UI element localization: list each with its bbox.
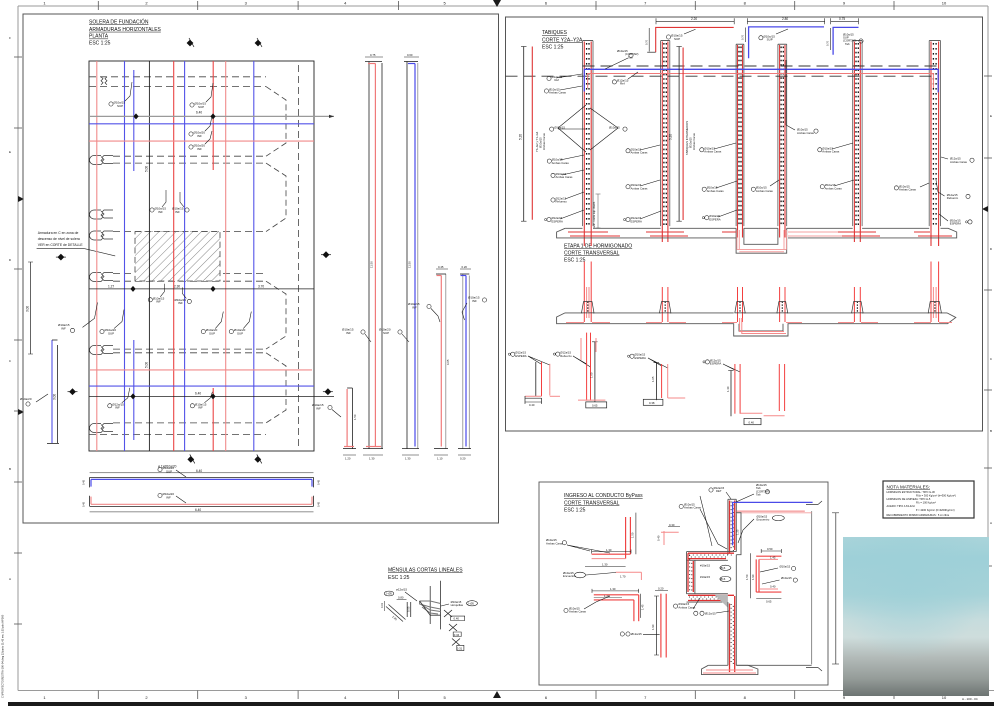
- svg-text:0.45: 0.45: [317, 501, 321, 507]
- svg-text:ESC 1:25: ESC 1:25: [564, 507, 586, 513]
- svg-text:Encuentro: Encuentro: [757, 518, 770, 522]
- panel 1 titles: [89, 19, 162, 47]
- svg-text:INF: INF: [197, 147, 202, 151]
- svg-text:ESPERA: ESPERA: [710, 362, 721, 366]
- svg-text:CORTE TRANSVERSAL: CORTE TRANSVERSAL: [564, 500, 620, 506]
- svg-text:INGRESO AL CONDUCTO ByPass: INGRESO AL CONDUCTO ByPass: [564, 493, 643, 499]
- svg-text:ff = 4200 Kg/cm² (F=4200Kg/cm: ff = 4200 Kg/cm² (F=4200Kg/cm²): [916, 508, 955, 512]
- bottom center arrow marker: [493, 691, 501, 698]
- section marker right D: [323, 388, 333, 395]
- svg-text:1.25: 1.25: [736, 529, 740, 535]
- svg-text:5.00: 5.00: [145, 166, 149, 172]
- z-wall middle horizontal band: [687, 552, 737, 561]
- bent bar diagram T2 blue 2.80: [741, 17, 825, 58]
- svg-text:Ø16: Ø16: [720, 566, 726, 570]
- svg-text:Refuerzo: Refuerzo: [560, 354, 572, 358]
- bottom column numbers: [43, 695, 947, 700]
- svg-text:SUP: SUP: [383, 331, 389, 335]
- svg-text:B: B: [9, 467, 11, 471]
- plan rebar tag callouts: [70, 82, 251, 408]
- svg-text:0.75: 0.75: [370, 53, 376, 57]
- svg-text:Ambas Caras: Ambas Caras: [569, 610, 587, 614]
- svg-text:R'c = 100 Kg/cm²: R'c = 100 Kg/cm²: [916, 501, 936, 505]
- svg-text:Ambas Caras: Ambas Caras: [631, 151, 649, 155]
- callout ref between c3 c4: [0, 0, 1, 1]
- svg-text:1.50: 1.50: [353, 414, 357, 420]
- svg-text:A: A: [990, 521, 992, 525]
- callout encuentro right: [738, 515, 784, 544]
- blue rebar in z-wall: [733, 502, 813, 545]
- plan rebar horizontal red y369.9: [90, 369, 312, 371]
- svg-text:INF: INF: [178, 301, 183, 305]
- svg-text:Ø16: Ø16: [720, 577, 726, 581]
- svg-text:0.30: 0.30: [669, 523, 675, 527]
- svg-text:Ref: Ref: [620, 82, 625, 86]
- svg-text:0.20: 0.20: [462, 265, 468, 269]
- svg-text:1.30: 1.30: [602, 563, 608, 567]
- svg-text:1.10: 1.10: [437, 457, 443, 461]
- vertical bar diagram v2 blue tall: [379, 53, 419, 461]
- NOTA MATERIALES title block: [883, 481, 974, 518]
- plan rebar vertical blue x253.8: [253, 61, 255, 451]
- svg-text:Armadura en C en zona de: Armadura en C en zona de: [38, 231, 79, 235]
- svg-text:HORMIGON DE LIMPIEZA: TIPO H: HORMIGON DE LIMPIEZA: TIPO H-5: [887, 497, 931, 501]
- svg-text:SUP: SUP: [198, 105, 204, 109]
- panel 2 titles: [542, 30, 583, 50]
- left callouts column c1: [544, 74, 627, 222]
- svg-text:2.30: 2.30: [174, 285, 180, 289]
- svg-text:1.70: 1.70: [620, 575, 626, 579]
- svg-text:6.40: 6.40: [196, 111, 202, 115]
- svg-text:F: F: [9, 36, 11, 40]
- ground line right of footing: [736, 664, 811, 666]
- horizontal bar diagram blue 6.40: [82, 466, 321, 487]
- callout c4 lower: [751, 180, 779, 193]
- panel 3 frame: ingreso al conducto: [539, 482, 828, 685]
- etapa wall stub rebar c5: [838, 287, 878, 323]
- svg-text:0.40: 0.40: [657, 535, 661, 541]
- svg-text:11.50: 11.50: [370, 261, 374, 268]
- svg-text:ESC 1:25: ESC 1:25: [564, 257, 586, 263]
- section marker left D: [68, 388, 78, 395]
- section marker bottom B: [254, 454, 261, 463]
- svg-text:SUP: SUP: [117, 104, 123, 108]
- red rebar top run: [736, 510, 805, 512]
- svg-text:0.70: 0.70: [741, 34, 745, 40]
- svg-text:ESPERA: ESPERA: [552, 219, 563, 223]
- left edge bar diagram x52: [20, 340, 59, 444]
- svg-text:Ambas Caras: Ambas Caras: [552, 161, 570, 165]
- svg-text:SUP: SUP: [767, 38, 773, 42]
- plan keyway tabs left edge: [90, 77, 114, 433]
- svg-text:ESPERA: ESPERA: [950, 222, 961, 226]
- svg-text:0.40: 0.40: [749, 420, 755, 424]
- svg-text:5.20: 5.20: [669, 134, 673, 140]
- svg-text:3.00: 3.00: [26, 306, 30, 312]
- svg-text:5.00: 5.00: [145, 362, 149, 368]
- etapa wall stub rebar c4: [780, 287, 802, 323]
- svg-text:INF: INF: [158, 210, 163, 214]
- lower detail D2 refuerzo: [553, 333, 606, 408]
- svg-text:ESC 1:25: ESC 1:25: [89, 40, 111, 46]
- svg-text:ESPERA: ESPERA: [515, 354, 526, 358]
- callout c4 upper right: [786, 60, 818, 135]
- svg-text:0.45: 0.45: [82, 479, 86, 485]
- svg-text:0.31: 0.31: [380, 602, 384, 608]
- vertical bar diagram v0 short left: [312, 388, 357, 461]
- callouts column c2: [624, 145, 662, 222]
- svg-text:2.80: 2.80: [782, 17, 788, 21]
- callout cortar tab top right: [736, 483, 770, 502]
- svg-text:6.40: 6.40: [195, 508, 201, 512]
- svg-text:10: 10: [942, 1, 947, 6]
- svg-text:2.20: 2.20: [691, 17, 697, 21]
- svg-text:0.65: 0.65: [592, 404, 598, 408]
- svg-text:Ref: Ref: [555, 78, 560, 82]
- svg-text:VER en CORTE de DETALLE: VER en CORTE de DETALLE: [38, 243, 84, 247]
- z-wall top vertical segment: [728, 499, 736, 554]
- plan rebar vertical red x225.7: [225, 61, 227, 451]
- svg-text:0.50: 0.50: [767, 547, 773, 551]
- svg-text:ø12a/15: ø12a/15: [396, 588, 407, 592]
- svg-text:0.55: 0.55: [407, 606, 411, 612]
- svg-text:3.70: 3.70: [258, 285, 264, 289]
- svg-text:1.30: 1.30: [405, 457, 411, 461]
- C-detail right: [745, 547, 797, 604]
- svg-text:2–Ø5: 2–Ø5: [468, 601, 475, 605]
- callouts column c3: [700, 143, 737, 220]
- svg-text:Ambas Caras: Ambas Caras: [797, 131, 815, 135]
- lower detail D1 espera: [508, 351, 560, 407]
- svg-text:Ambas Caras: Ambas Caras: [899, 188, 917, 192]
- svg-text:NOTA MATERIALES:: NOTA MATERIALES:: [887, 485, 930, 490]
- vertical bar diagram v4 blue short: [458, 265, 487, 461]
- top column numbers: [43, 1, 947, 6]
- svg-text:Ø10a/15: Ø10a/15: [609, 126, 620, 130]
- callout ambas caras bottom: [674, 598, 701, 609]
- wall column C1: [583, 41, 594, 246]
- X detail 1: [444, 610, 465, 621]
- svg-text:Tab: Tab: [845, 42, 850, 46]
- svg-text:0.31: 0.31: [457, 647, 463, 651]
- plan gray chord line y116.4: [89, 115, 334, 117]
- svg-text:C:\PROYECTOS\EST\A-100-04.dwg: C:\PROYECTOS\EST\A-100-04.dwg 22-junio 1…: [1, 614, 5, 698]
- svg-text:Ø12a/15: Ø12a/15: [705, 611, 716, 615]
- etapa wall stub rebar c3: [722, 287, 786, 334]
- svg-text:Ø10a/15: Ø10a/15: [780, 565, 791, 569]
- svg-text:Ambas Caras: Ambas Caras: [692, 132, 696, 150]
- svg-text:PLANTA: PLANTA: [89, 34, 109, 40]
- svg-text:INF: INF: [115, 406, 120, 410]
- svg-text:0.45: 0.45: [438, 265, 444, 269]
- svg-text:1.90: 1.90: [651, 624, 655, 630]
- panel 1 frame: solera de fundacion: [23, 14, 499, 523]
- water level dashed lines: [583, 65, 939, 67]
- svg-text:Ambas Caras: Ambas Caras: [707, 189, 725, 193]
- footing red rebar: [568, 230, 952, 252]
- svg-text:INF: INF: [472, 299, 477, 303]
- svg-text:0.40: 0.40: [454, 617, 460, 621]
- svg-text:3.00: 3.00: [53, 394, 57, 400]
- svg-text:1.30: 1.30: [726, 386, 730, 392]
- callout ambas caras top left: [679, 503, 727, 550]
- svg-text:Ambas Caras: Ambas Caras: [704, 150, 722, 154]
- svg-text:CORTE Y2A–Y2A: CORTE Y2A–Y2A: [542, 37, 583, 43]
- svg-text:1.30: 1.30: [606, 548, 612, 552]
- plan rebar vertical red x213 segments: [212, 61, 214, 170]
- svg-text:CORTE TRANSVERSAL: CORTE TRANSVERSAL: [564, 251, 620, 257]
- svg-text:Ambas Caras: Ambas Caras: [546, 541, 564, 545]
- svg-text:Ambas Caras: Ambas Caras: [542, 132, 546, 150]
- svg-text:ETAPA 1 DE HORMIGONADO: ETAPA 1 DE HORMIGONADO: [564, 244, 632, 250]
- svg-text:INF: INF: [175, 210, 180, 214]
- svg-text:ESPERA: ESPERA: [635, 356, 646, 360]
- callout det top: [709, 486, 731, 499]
- svg-text:0.60: 0.60: [407, 53, 413, 57]
- svg-text:Refuerzo: Refuerzo: [556, 200, 568, 204]
- svg-text:0.20: 0.20: [658, 587, 664, 591]
- panel 3 titles: [564, 493, 643, 513]
- mensula wall lines: [429, 586, 431, 624]
- horizontal bar diagram red 6.40: [82, 492, 321, 512]
- left border ticks and row letters: [14, 57, 22, 624]
- svg-text:Ambas Caras: Ambas Caras: [825, 186, 843, 190]
- plan dashed inner walls horizontal: [89, 65, 298, 447]
- svg-text:2–Ø5: 2–Ø5: [386, 592, 393, 596]
- plan mid dimension line y288.9: [89, 288, 314, 290]
- right border ticks and row letters: [984, 76, 992, 566]
- svg-text:R'ck = 300 Kg/cm² (h=300 Kg/c: R'ck = 300 Kg/cm² (h=300 Kg/cm²): [916, 493, 956, 497]
- svg-text:#10a/15: #10a/15: [700, 575, 711, 579]
- svg-text:B: B: [990, 429, 992, 433]
- bent bar diagram T1 red 2.20: [645, 17, 735, 52]
- plan grid line x149.4: [148, 61, 150, 451]
- svg-text:TABIQUES: TABIQUES: [542, 30, 568, 36]
- svg-text:INF: INF: [61, 326, 66, 330]
- svg-text:1.50: 1.50: [631, 532, 635, 538]
- bottom border ticks: [98, 691, 894, 700]
- svg-text:Ø12a/15: Ø12a/15: [631, 632, 642, 636]
- X detail 3: [452, 639, 464, 651]
- hatched zone armadura en C: [135, 232, 220, 281]
- bent bar diagram T3 blue 0.75: [825, 17, 863, 55]
- svg-text:ESPERA: ESPERA: [631, 219, 642, 223]
- svg-text:Tab: Tab: [756, 493, 761, 497]
- svg-text:Ambas Caras: Ambas Caras: [556, 175, 574, 179]
- svg-text:Ambas Caras: Ambas Caras: [631, 186, 649, 190]
- callout cortar tab top left: [605, 49, 638, 69]
- svg-text:Tab: Tab: [628, 56, 633, 60]
- svg-text:1.20: 1.20: [345, 457, 351, 461]
- z-wall left vertical segment: [687, 552, 695, 594]
- svg-text:Ø10a/15: Ø10a/15: [781, 576, 792, 580]
- note armadura en C: [38, 231, 84, 247]
- footing of z-wall: [702, 665, 758, 674]
- z-wall bottom horizontal band: [687, 594, 735, 602]
- z-wall right notch flange: [736, 513, 741, 555]
- svg-text:1.30: 1.30: [369, 457, 375, 461]
- red top rebar run: [588, 74, 934, 89]
- top border ticks: [98, 1, 894, 10]
- svg-text:Refuerzo: Refuerzo: [947, 196, 959, 200]
- plan rebar horizontal blue y386.1: [89, 385, 314, 387]
- small corner detail 0.30/0.40 left: [657, 523, 681, 545]
- svg-text:Ambas Caras: Ambas Caras: [756, 189, 774, 193]
- svg-text:Ø10a/20: Ø10a/20: [20, 397, 32, 401]
- svg-text:Ambas Caras: Ambas Caras: [684, 506, 702, 510]
- mensulas titles: [388, 567, 463, 581]
- svg-text:0.45: 0.45: [317, 479, 321, 485]
- blue top rebar run: [584, 69, 938, 92]
- left tall dimension bar with 5.20: [519, 47, 547, 222]
- svg-text:SUP: SUP: [237, 331, 243, 335]
- svg-text:1.45: 1.45: [770, 555, 776, 559]
- svg-text:INF: INF: [197, 134, 202, 138]
- svg-text:INF: INF: [412, 305, 417, 309]
- svg-text:Ambas Caras: Ambas Caras: [950, 160, 968, 164]
- svg-text:INF: INF: [166, 495, 171, 499]
- svg-text:1.90: 1.90: [751, 574, 755, 580]
- callouts column c6: [894, 157, 974, 224]
- callouts center step: [700, 564, 731, 582]
- plan outline: [89, 61, 314, 451]
- svg-text:RECUBRIMIENTO MINIMO ARMADURAS: RECUBRIMIENTO MINIMO ARMADURAS : 5 cm li…: [887, 513, 950, 517]
- svg-text:SOLERA DE FUNDACIÓN: SOLERA DE FUNDACIÓN: [89, 19, 149, 26]
- mensula bracket shape: [420, 601, 441, 614]
- wall column C4: [778, 44, 787, 237]
- callout ref mid: [612, 72, 638, 86]
- etapa wall stub rebar c2: [646, 287, 686, 323]
- mid dimension bar with 5.20: [669, 47, 697, 222]
- svg-text:ARMADURAS HORIZONTALES: ARMADURAS HORIZONTALES: [89, 27, 162, 33]
- svg-text:term. Cierre sup. interm.: term. Cierre sup. interm.: [593, 201, 596, 228]
- svg-text:0.80: 0.80: [398, 596, 404, 600]
- plan rebar vertical blue x124.5: [124, 61, 126, 451]
- section marker top A: [187, 38, 194, 47]
- small red L detail below c1: [581, 338, 596, 360]
- panel 2 frame: tabiques: [506, 17, 983, 431]
- svg-text:0.65: 0.65: [766, 600, 772, 604]
- svg-text:0.34: 0.34: [454, 633, 460, 637]
- lower detail D4 trench U: [703, 358, 785, 424]
- corner detail B: [563, 571, 641, 580]
- svg-text:DET: DET: [716, 489, 722, 493]
- svg-text:0.20: 0.20: [460, 457, 466, 461]
- footing of tabiques: [557, 228, 957, 253]
- svg-text:1.30: 1.30: [610, 587, 616, 591]
- section marker top B: [255, 38, 262, 47]
- svg-text:1.60: 1.60: [589, 372, 593, 378]
- svg-text:INF: INF: [316, 406, 321, 410]
- dim right side vertical: [835, 513, 837, 664]
- plan rebar vertical blue x184.6: [184, 61, 186, 451]
- svg-text:0.75: 0.75: [839, 17, 845, 21]
- plan rebar vertical blue x133.8 segments: [133, 70, 135, 171]
- svg-text:SUP: SUP: [108, 331, 114, 335]
- bottom black bar: [8, 702, 994, 706]
- svg-text:ESC 1:25: ESC 1:25: [542, 44, 564, 50]
- svg-text:5.20: 5.20: [519, 134, 523, 140]
- svg-text:INF: INF: [346, 331, 351, 335]
- plan rebar vertical red line x96.8: [96, 61, 98, 451]
- z-wall lower vertical segment: [728, 555, 736, 672]
- L-detail A upper left: [546, 513, 636, 567]
- wall column C2: [661, 41, 670, 242]
- svg-text:0.38: 0.38: [649, 401, 655, 405]
- svg-text:Encuentro: Encuentro: [563, 574, 576, 578]
- svg-text:Ø10a/15: Ø10a/15: [554, 126, 565, 130]
- vertical bar detail D 0.20: [620, 587, 668, 658]
- svg-text:ESC 1:25: ESC 1:25: [388, 575, 410, 581]
- plan lower dimension line y396.4: [89, 395, 334, 397]
- svg-text:INF: INF: [198, 406, 203, 410]
- etapa 1 slab: [557, 313, 956, 336]
- left inclined bar: [380, 596, 411, 622]
- wall column C3: [736, 44, 744, 237]
- etapa wall stub rebar c6: [914, 262, 952, 323]
- svg-text:0.40: 0.40: [529, 403, 535, 407]
- plan dashed bay chamfers: [266, 87, 286, 423]
- callout 12a15 bottom pair circles: [694, 611, 729, 615]
- vertical bar diagram v3 red short: [408, 265, 450, 461]
- vertical bar diagram v1 red tall: [342, 53, 383, 461]
- svg-text:SUP: SUP: [674, 37, 680, 41]
- excavation boundary gray: [811, 511, 813, 664]
- svg-text:Horquillas: Horquillas: [451, 603, 464, 607]
- svg-text:1.45: 1.45: [641, 604, 645, 610]
- left dimension line x30.5: [26, 262, 34, 354]
- leader from det to wall: [700, 496, 712, 546]
- svg-text:SUP: SUP: [209, 331, 215, 335]
- top center arrow marker: [493, 0, 501, 7]
- svg-text:1.50: 1.50: [745, 574, 749, 580]
- wall column C5: [853, 41, 862, 242]
- wall column C6: [929, 41, 940, 246]
- lower detail D3 espera: [628, 353, 686, 406]
- svg-text:MÉNSULAS CORTAS LINEALES: MÉNSULAS CORTAS LINEALES: [388, 567, 463, 574]
- svg-text:11.50: 11.50: [408, 261, 412, 268]
- svg-text:Ambas Caras: Ambas Caras: [822, 150, 840, 154]
- svg-text:1.05: 1.05: [651, 376, 655, 382]
- svg-text:0.70: 0.70: [825, 40, 829, 46]
- svg-text:descenso de nivel de solera: descenso de nivel de solera: [38, 237, 80, 241]
- svg-text:ACERO: TIPO: ACERO: TIPO A 63-42H: [887, 504, 915, 508]
- plan rebar vertical red x173.7: [173, 61, 175, 451]
- svg-text:Ambas Caras: Ambas Caras: [549, 91, 567, 95]
- section marker right C: [321, 251, 331, 258]
- svg-text:A: A: [9, 577, 11, 581]
- plan rebar horizontal red y141.1: [89, 140, 314, 142]
- etapa wall stub rebar c1: [566, 262, 610, 323]
- section marker bottom A: [187, 454, 194, 463]
- callouts column c5: [818, 143, 854, 189]
- svg-text:6.40: 6.40: [196, 469, 202, 473]
- L-detail C lower left: [564, 587, 645, 621]
- svg-text:E: E: [9, 150, 11, 154]
- svg-text:ESPERA: ESPERA: [709, 217, 720, 221]
- svg-text:0.70: 0.70: [645, 39, 649, 45]
- svg-text:A - 100 - 04: A - 100 - 04: [962, 697, 978, 701]
- etapa stub key c1: [582, 302, 595, 313]
- svg-text:E: E: [990, 114, 992, 118]
- etapa titles: [564, 244, 632, 264]
- section marker left C: [56, 254, 66, 261]
- X detail 2: [449, 624, 461, 637]
- svg-text:INF: INF: [156, 300, 161, 304]
- mensula ellipse callout left: [384, 591, 394, 596]
- svg-text:1.27: 1.27: [108, 285, 114, 289]
- gray wedge under step: [715, 595, 728, 608]
